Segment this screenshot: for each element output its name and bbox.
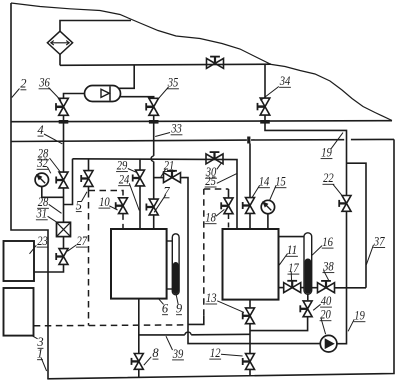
svg-text:19: 19	[354, 309, 365, 323]
valve 7	[146, 199, 158, 215]
label 39	[166, 336, 184, 361]
svg-text:15: 15	[275, 175, 286, 189]
label 15	[270, 175, 287, 201]
label 34	[261, 74, 291, 100]
wire capillary of sensor 5 down (dashed)	[88, 191, 90, 326]
ejector capsule with check symbol	[85, 86, 121, 102]
wire horizontal pipe y140 rightmost segment	[351, 138, 394, 140]
label 19b	[348, 309, 365, 332]
wire bottom and right outer boundary	[47, 139, 394, 378]
wire valve 8 to bottom line	[138, 369, 140, 377]
label 18	[205, 209, 225, 224]
wire horizontal pipe y121	[11, 121, 392, 122]
wire branch down x265 to valve 34	[264, 64, 266, 99]
svg-text:23: 23	[37, 234, 48, 248]
svg-text:17: 17	[288, 261, 299, 275]
valve 28	[56, 172, 68, 188]
wire horizontal pipe y140 left of flange	[11, 140, 247, 141]
wire pipe from valve 34 down and right to valve 22 column	[265, 115, 347, 195]
box 3	[4, 288, 34, 336]
wire valve 18 to tank 11 (dashed)	[228, 214, 230, 229]
svg-text:14: 14	[259, 175, 270, 189]
wire capsule left to valve 36	[64, 94, 85, 99]
thermometer 6 connections	[167, 241, 173, 289]
svg-text:27: 27	[77, 234, 88, 248]
wire valve 29 top stub	[139, 159, 141, 170]
svg-text:39: 39	[172, 347, 184, 361]
valve 38	[318, 281, 335, 293]
label 30	[205, 163, 221, 179]
wire valve 40 outlet line	[250, 317, 308, 330]
valve 29	[133, 170, 145, 186]
wire valve 5 bottom stub	[88, 187, 90, 191]
svg-text:31: 31	[36, 207, 47, 221]
wire pipe x346.5 valve 22 down to pump outlet	[337, 212, 347, 344]
valve 13	[243, 308, 255, 324]
wire free-form boundary curve	[11, 3, 392, 121]
wire gauge 15 to tank 11	[267, 214, 269, 229]
wire thermometer 16 to valve 40	[307, 294, 309, 300]
wire crossing jump on x153.7	[151, 156, 154, 162]
valve 8	[132, 354, 144, 370]
valve 12	[243, 354, 255, 370]
svg-text:25: 25	[205, 174, 216, 188]
valve 21	[164, 171, 181, 183]
label 37	[366, 234, 385, 264]
wire pipe x250 valve 13 to valve 12	[249, 324, 251, 353]
label 32	[36, 156, 50, 173]
wire valve 12 to bottom line	[249, 370, 251, 376]
label 27	[67, 234, 87, 251]
label 33	[155, 122, 182, 137]
label 3	[31, 335, 44, 349]
label 19a	[321, 133, 343, 160]
three-way valve 35	[146, 98, 158, 115]
label 22	[323, 171, 343, 196]
label 4	[37, 123, 62, 144]
three-way valve 36	[56, 98, 68, 115]
svg-text:24: 24	[119, 173, 130, 187]
union under valve 35	[149, 120, 159, 124]
label 8	[144, 346, 160, 365]
three-way valve 34	[258, 98, 270, 115]
wire pipe x63.5 from valve 36 to valve 28	[63, 115, 65, 171]
svg-text:1: 1	[37, 347, 43, 361]
wire pipe x250 to valve 14	[249, 144, 251, 198]
wire capsule right to valve 35	[120, 97, 154, 99]
label 35	[158, 76, 179, 100]
wire tank 11 bottom to valve 13	[249, 300, 251, 308]
filter 31 (box with X)	[57, 222, 71, 236]
wire pipe x153.7 from valve 35 down to jump	[153, 115, 155, 156]
label 28a	[37, 147, 60, 172]
label 12	[209, 346, 242, 360]
wire capillary dashed horizontal y325	[34, 324, 188, 327]
gauge 32	[35, 173, 48, 186]
thermometer 16	[304, 233, 312, 294]
label 7	[154, 185, 170, 213]
valve 5	[81, 171, 93, 187]
svg-text:11: 11	[287, 243, 298, 257]
union under valve 36	[59, 120, 69, 124]
tank 11	[223, 229, 279, 300]
label 23	[30, 234, 49, 254]
wire valve 5 top stub	[88, 159, 90, 170]
label 10	[99, 195, 118, 210]
valve 40	[300, 301, 312, 317]
svg-text:8: 8	[152, 346, 159, 360]
wire valve 21 right connection down x188 and suction line to pump	[181, 178, 321, 344]
wire left outer boundary line 2	[11, 3, 48, 379]
label 36	[38, 76, 61, 101]
label 2	[12, 77, 27, 98]
label 13	[205, 291, 244, 313]
gauge 15	[261, 200, 274, 213]
svg-text:18: 18	[205, 211, 216, 225]
wire valve 18 top stub	[228, 189, 230, 198]
wire riser branch x72.5	[64, 159, 73, 205]
label 29	[116, 159, 136, 173]
wire line 39 jump over x188	[185, 332, 191, 335]
union under valve 34	[260, 120, 270, 124]
box 23	[4, 241, 35, 281]
valve 14	[243, 198, 255, 214]
label 17	[288, 261, 300, 281]
valve 22	[339, 196, 351, 212]
wire pipe valve 27 to box 23	[34, 265, 64, 272]
valve 30	[206, 152, 223, 164]
wire pipe x153.7 below jump to valve 7	[153, 162, 155, 199]
wire valve 29 to tank 6	[139, 186, 141, 229]
label 28b	[37, 195, 61, 213]
wire tank 6 bottom to valve 8	[138, 299, 140, 354]
wire pipe x63.5 filter 31 to valve 27	[63, 237, 65, 249]
svg-text:40: 40	[321, 294, 332, 308]
svg-text:34: 34	[279, 74, 290, 88]
svg-text:37: 37	[373, 234, 385, 248]
wire valve 10 to tank 6 (dashed)	[122, 214, 124, 229]
wire distribution line y158.8 to corner x237 into tank 11	[73, 159, 238, 229]
label 21	[161, 158, 175, 177]
wire capillary dashed horizontal to valve 10	[89, 191, 124, 198]
pump 20	[320, 335, 337, 352]
svg-text:32: 32	[36, 156, 47, 170]
wire valve 17 to thermometer 16 base	[301, 287, 305, 289]
svg-text:19: 19	[321, 146, 332, 160]
label 5	[76, 192, 87, 213]
label 24	[118, 173, 139, 211]
label 38	[322, 260, 334, 282]
wire valve 38 line to pipe 37	[335, 287, 367, 289]
wire branch to pipe 37	[347, 163, 367, 288]
tank 6	[111, 229, 167, 299]
wire valve 21 left connection	[154, 177, 164, 179]
wire line 39 to pipe x250	[191, 333, 250, 336]
label 6	[158, 298, 169, 316]
label 14	[252, 175, 270, 198]
label 31	[36, 207, 57, 223]
svg-text:12: 12	[210, 346, 221, 360]
valve 27	[56, 249, 68, 265]
svg-text:16: 16	[322, 235, 333, 249]
wire thermometer base to valve 38	[312, 287, 318, 289]
wire horizontal pipe y140 right of flange	[251, 139, 344, 141]
valve 10	[116, 198, 128, 214]
wire valve 14 to tank 11	[249, 214, 251, 229]
label 25	[205, 173, 238, 188]
wire tank 11 to valve 17	[279, 287, 284, 289]
label 16	[312, 235, 334, 255]
valve 18	[221, 198, 233, 214]
svg-text:5: 5	[76, 199, 82, 213]
svg-text:29: 29	[117, 159, 128, 173]
svg-text:9: 9	[176, 302, 183, 316]
label 40	[313, 294, 332, 310]
wire valve 7 to tank 6	[153, 215, 155, 229]
svg-text:33: 33	[170, 122, 181, 136]
label 11	[279, 243, 298, 266]
svg-text:2: 2	[20, 77, 26, 91]
svg-text:10: 10	[99, 195, 110, 209]
valve (unnumbered, top of drawing)	[207, 57, 224, 69]
wire dashed control line x204	[203, 189, 205, 316]
label 9	[176, 295, 183, 316]
wire pipe y64 from loop to branch x265	[60, 64, 271, 65]
wire pipe x63.5 valve 28 to filter 31	[63, 188, 65, 222]
valve 17	[284, 281, 301, 293]
wire line 39 from valve 8 column	[139, 334, 185, 336]
label 1	[37, 347, 47, 371]
wire dashed control line left elbow (solid part)	[188, 316, 204, 325]
svg-text:4: 4	[37, 123, 43, 137]
heat exchanger (diamond with arrows)	[47, 31, 72, 54]
wire tank 11 to thermometer 16	[279, 236, 305, 238]
wire gauge 32 connection	[42, 187, 64, 198]
thermometer 9 (on tank 6)	[172, 234, 179, 295]
svg-text:13: 13	[206, 291, 217, 305]
svg-text:22: 22	[323, 171, 334, 185]
flange on line y140 at x248.8	[247, 137, 250, 144]
wire loop drop to ejector capsule	[119, 65, 134, 88]
wire heat-exchanger loop left edge and top edge	[60, 21, 131, 66]
label 20	[320, 308, 332, 335]
wire dashed control line to valve 18	[204, 188, 229, 190]
